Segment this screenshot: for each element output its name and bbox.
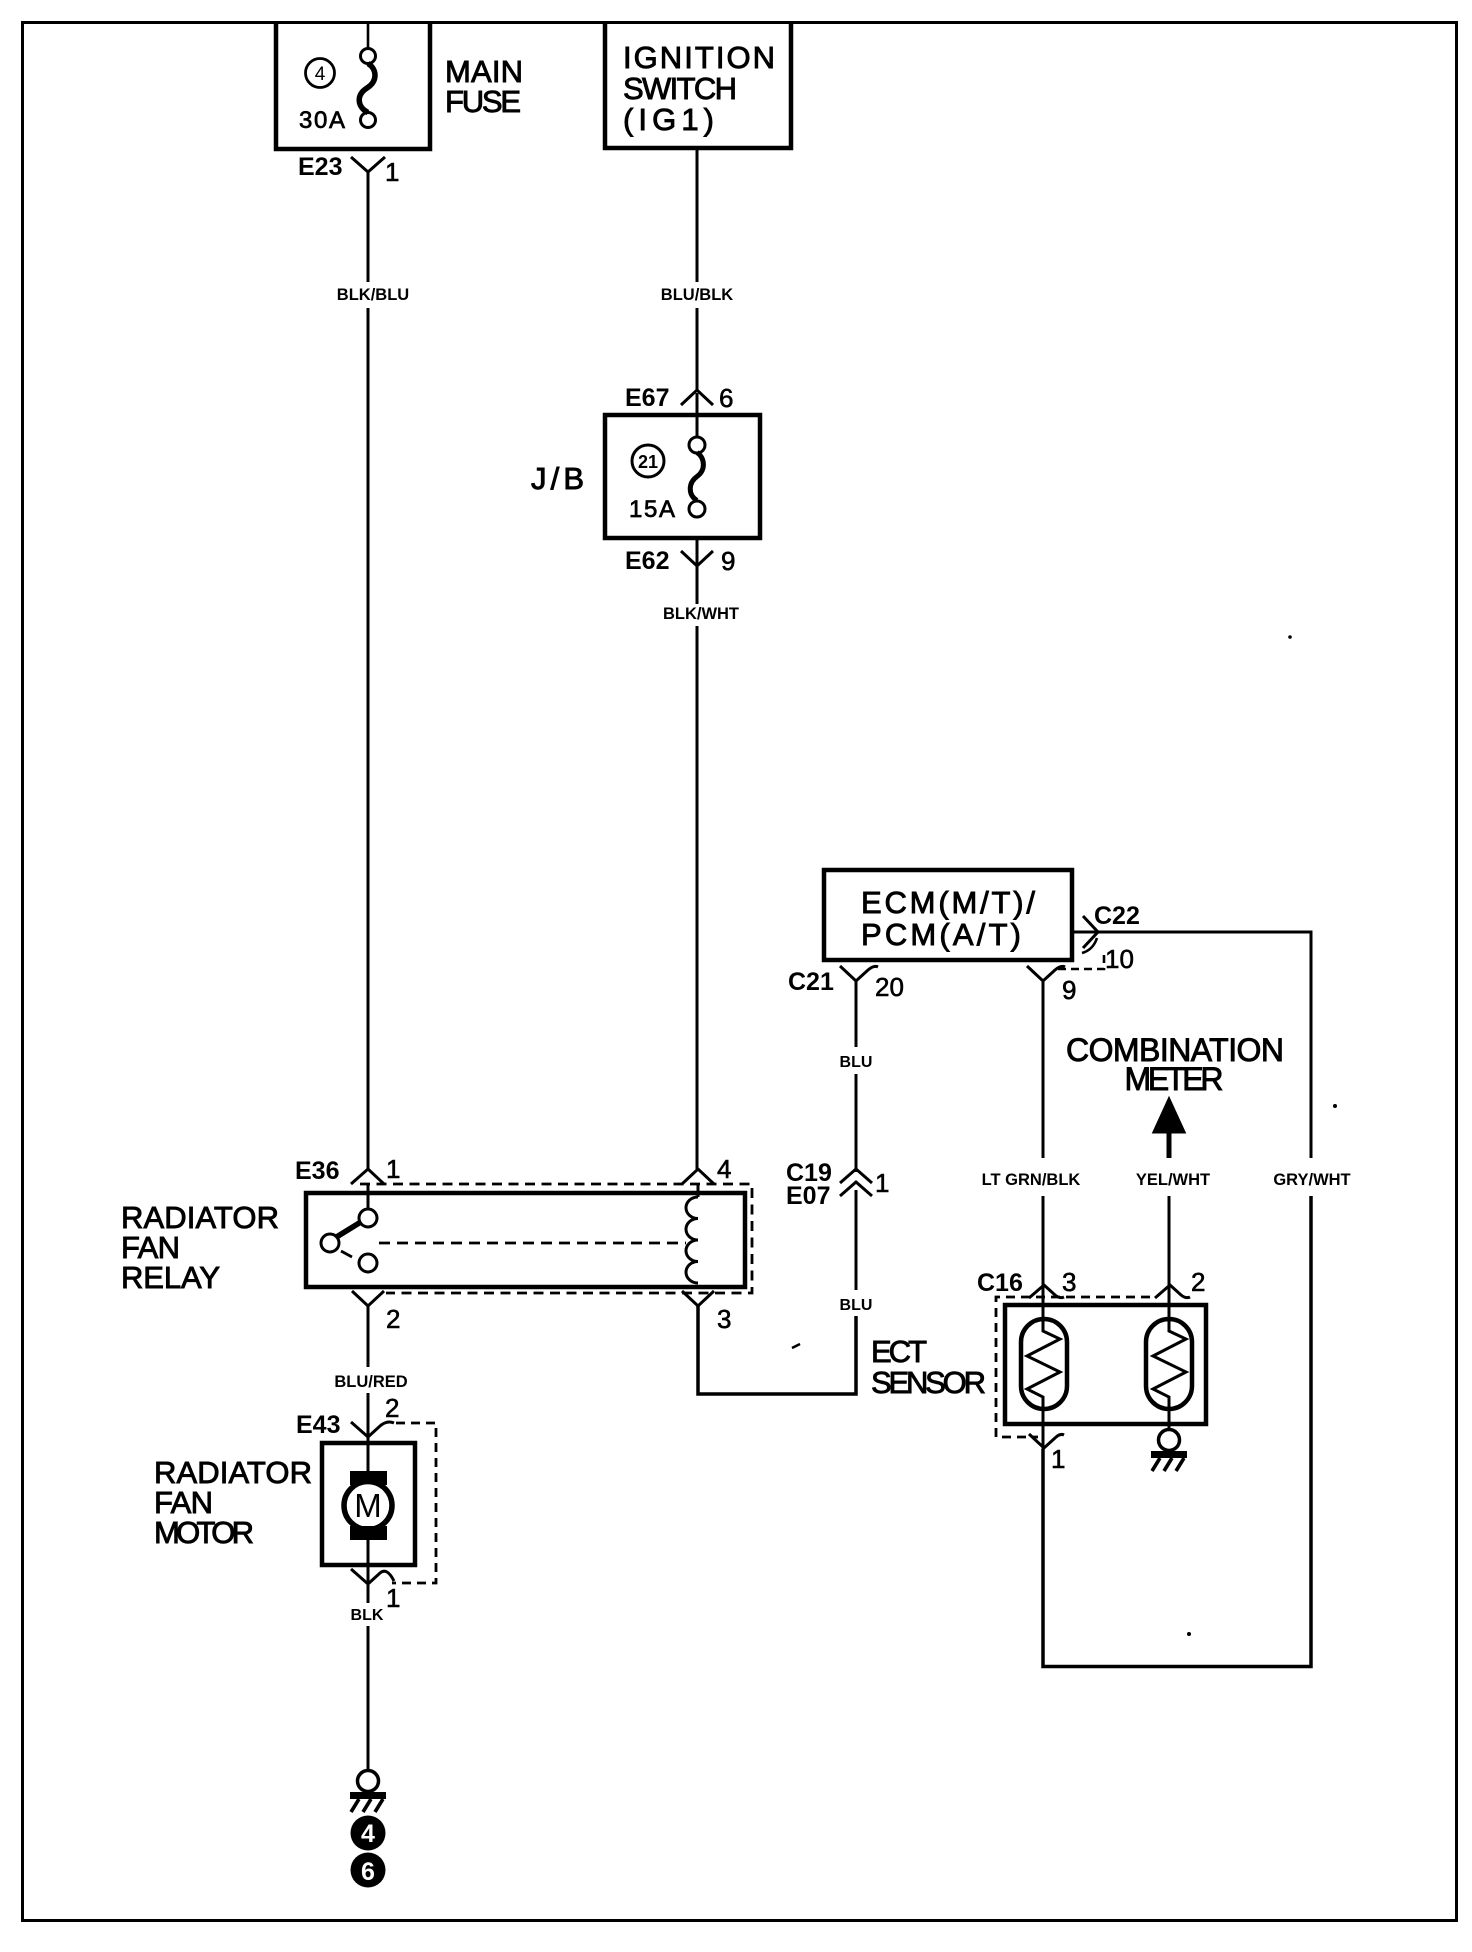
relay coil: [686, 1184, 698, 1283]
connector E62 pin 9: [625, 546, 735, 576]
wire LT GRN/BLK (ECM pin 9 to ECT sensor pin 3): [982, 981, 1081, 1290]
svg-text:1: 1: [875, 1168, 889, 1198]
svg-text:ECT: ECT: [871, 1334, 927, 1369]
arrow to combination meter: [1153, 1097, 1186, 1133]
connector E43 pin 2: [296, 1393, 399, 1439]
svg-text:E67: E67: [625, 384, 669, 412]
svg-text:C16: C16: [977, 1269, 1023, 1297]
svg-text:E07: E07: [786, 1182, 830, 1210]
svg-text:BLU/BLK: BLU/BLK: [661, 286, 733, 304]
box IGNITION SWITCH (IG1): [605, 22, 791, 148]
connector C21 pin 20: [788, 966, 904, 1002]
connector E36 chevron pin 4: [682, 1154, 731, 1184]
svg-text:FUSE: FUSE: [445, 84, 521, 119]
svg-text:E36: E36: [295, 1157, 339, 1185]
ground symbol (radiator fan motor): [350, 1771, 386, 1813]
svg-text:BLK/BLU: BLK/BLU: [337, 286, 409, 304]
svg-text:BLK/WHT: BLK/WHT: [663, 605, 739, 623]
value label 30A: [299, 107, 345, 134]
svg-text:2: 2: [385, 1393, 399, 1423]
svg-text:6: 6: [361, 1858, 375, 1886]
splice point 6: [351, 1853, 386, 1888]
connector E23 chevron pin 1: [351, 157, 399, 187]
svg-text:SENSOR: SENSOR: [871, 1365, 986, 1400]
svg-text:YEL/WHT: YEL/WHT: [1136, 1171, 1210, 1189]
wire YEL/WHT (combination meter to ECT sensor pin 2): [1136, 1133, 1210, 1290]
fuse F4 30A symbol: [359, 23, 375, 128]
wire GRY/WHT (C22 branch to ECT sensor pin 1): [1043, 932, 1351, 1667]
svg-text:BLU/RED: BLU/RED: [334, 1373, 407, 1391]
thermistor RT2 (ECT sensor right): [1146, 1290, 1192, 1429]
svg-text:21: 21: [638, 452, 658, 472]
svg-text:20: 20: [875, 972, 904, 1002]
svg-text:C22: C22: [1094, 902, 1140, 930]
connector C22 label: [1094, 902, 1140, 930]
svg-text:LT GRN/BLK: LT GRN/BLK: [982, 1171, 1081, 1189]
svg-text:MOTOR: MOTOR: [154, 1515, 254, 1550]
svg-text:10: 10: [1105, 944, 1134, 974]
ECT sensor connector housing dashed box: [996, 1297, 1150, 1437]
svg-text:1: 1: [385, 157, 399, 187]
box ECM(M/T)/PCM(A/T) U1: [824, 870, 1072, 960]
label RADIATOR FAN MOTOR: [154, 1455, 312, 1550]
fuse 15A symbol in J/B: [689, 393, 705, 517]
svg-text:6: 6: [719, 383, 733, 413]
svg-text:IGNITION: IGNITION: [623, 40, 775, 75]
svg-text:4: 4: [361, 1820, 375, 1848]
svg-text:BLU: BLU: [840, 1297, 873, 1314]
svg-text:C21: C21: [788, 968, 834, 996]
wire BLU upper (ECM C21-20 to C19/E07): [840, 981, 873, 1172]
svg-text:3: 3: [1062, 1267, 1076, 1297]
connector pin 9 of ECM: [1027, 966, 1076, 1005]
svg-text:9: 9: [1062, 975, 1076, 1005]
fuse box MAIN FUSE: [276, 22, 523, 149]
label COMBINATION METER: [1066, 1032, 1284, 1097]
connector C19/E07 pin 1: [786, 1159, 889, 1210]
svg-text:J/B: J/B: [531, 461, 584, 496]
thermistor RT1 (ECT sensor left): [1021, 1290, 1067, 1449]
svg-text:2: 2: [1191, 1267, 1205, 1297]
ECT sensor body box: [1005, 1305, 1206, 1424]
connector C16 label: [977, 1269, 1023, 1297]
svg-text:4: 4: [717, 1154, 731, 1184]
svg-text:ECM(M/T)/: ECM(M/T)/: [861, 885, 1035, 920]
motor M1 symbol: [344, 1437, 392, 1583]
connector C16 chevron pin 3: [1029, 1267, 1076, 1298]
svg-text:1: 1: [386, 1154, 400, 1184]
svg-text:15A: 15A: [629, 496, 675, 523]
svg-text:2: 2: [386, 1304, 400, 1334]
connector E23 label: [298, 153, 342, 181]
splice point 4: [351, 1816, 386, 1851]
relay connector housing dashed box: [360, 1184, 752, 1293]
connector C16 chevron pin 1: [1029, 1434, 1065, 1474]
junction block J/B box: [531, 415, 760, 538]
svg-text:PCM(A/T): PCM(A/T): [861, 917, 1021, 952]
svg-text:METER: METER: [1125, 1061, 1224, 1097]
relay switch contacts: [321, 1184, 377, 1272]
wire BLK/WHT (J/B to relay pin 4): [663, 540, 739, 1169]
fuse number circle 21: [632, 445, 664, 477]
svg-text:M: M: [354, 1487, 382, 1524]
svg-text:3: 3: [717, 1304, 731, 1334]
relay K1 body box: [306, 1193, 745, 1287]
wire BLU/RED (relay pin 2 to motor): [334, 1306, 407, 1438]
svg-text:SWITCH: SWITCH: [623, 71, 737, 106]
fuse number circle 4: [306, 59, 335, 88]
connector E36 chevron pin 2: [352, 1291, 400, 1334]
motor connector housing dashed box: [392, 1423, 436, 1583]
svg-text:E62: E62: [625, 547, 669, 575]
motor body box: [322, 1443, 415, 1565]
svg-text:GRY/WHT: GRY/WHT: [1273, 1171, 1350, 1189]
wire ECM pin 10 to GRY/WHT branch: [1072, 931, 1313, 934]
value label 15A: [629, 496, 675, 523]
svg-text:BLU: BLU: [840, 1054, 873, 1071]
connector C16 chevron pin 2: [1155, 1267, 1205, 1298]
svg-text:E43: E43: [296, 1411, 340, 1439]
connector C22 chevron pin 10: [1058, 916, 1134, 974]
svg-text:9: 9: [721, 546, 735, 576]
relay armature dashed link: [379, 1242, 686, 1245]
wire BLU/BLK (ignition switch to J/B): [661, 148, 733, 390]
svg-text:BLK: BLK: [351, 1607, 384, 1624]
svg-text:1: 1: [386, 1583, 400, 1613]
relay K1 label RADIATOR FAN RELAY: [121, 1200, 279, 1295]
connector E36 label: [295, 1157, 339, 1185]
wire BLK (motor to ground): [351, 1584, 384, 1771]
svg-text:1: 1: [1051, 1444, 1065, 1474]
connector E67 pin 6: [625, 383, 733, 413]
connector E36 chevron pin 1: [351, 1154, 400, 1184]
wire BLU lower (C19/E07 to relay pin 3): [698, 1190, 872, 1394]
svg-text:RELAY: RELAY: [121, 1260, 220, 1295]
connector E43 pin 1: [351, 1569, 400, 1613]
label ECT SENSOR: [871, 1334, 986, 1400]
connector E36 chevron pin 3: [682, 1291, 731, 1334]
ground symbol (ECT sensor): [1151, 1430, 1187, 1472]
wire BLK/BLU (fuse to relay pin 1): [337, 172, 409, 1169]
svg-text:E23: E23: [298, 153, 342, 181]
svg-text:4: 4: [315, 64, 326, 85]
svg-text:30A: 30A: [299, 107, 345, 134]
